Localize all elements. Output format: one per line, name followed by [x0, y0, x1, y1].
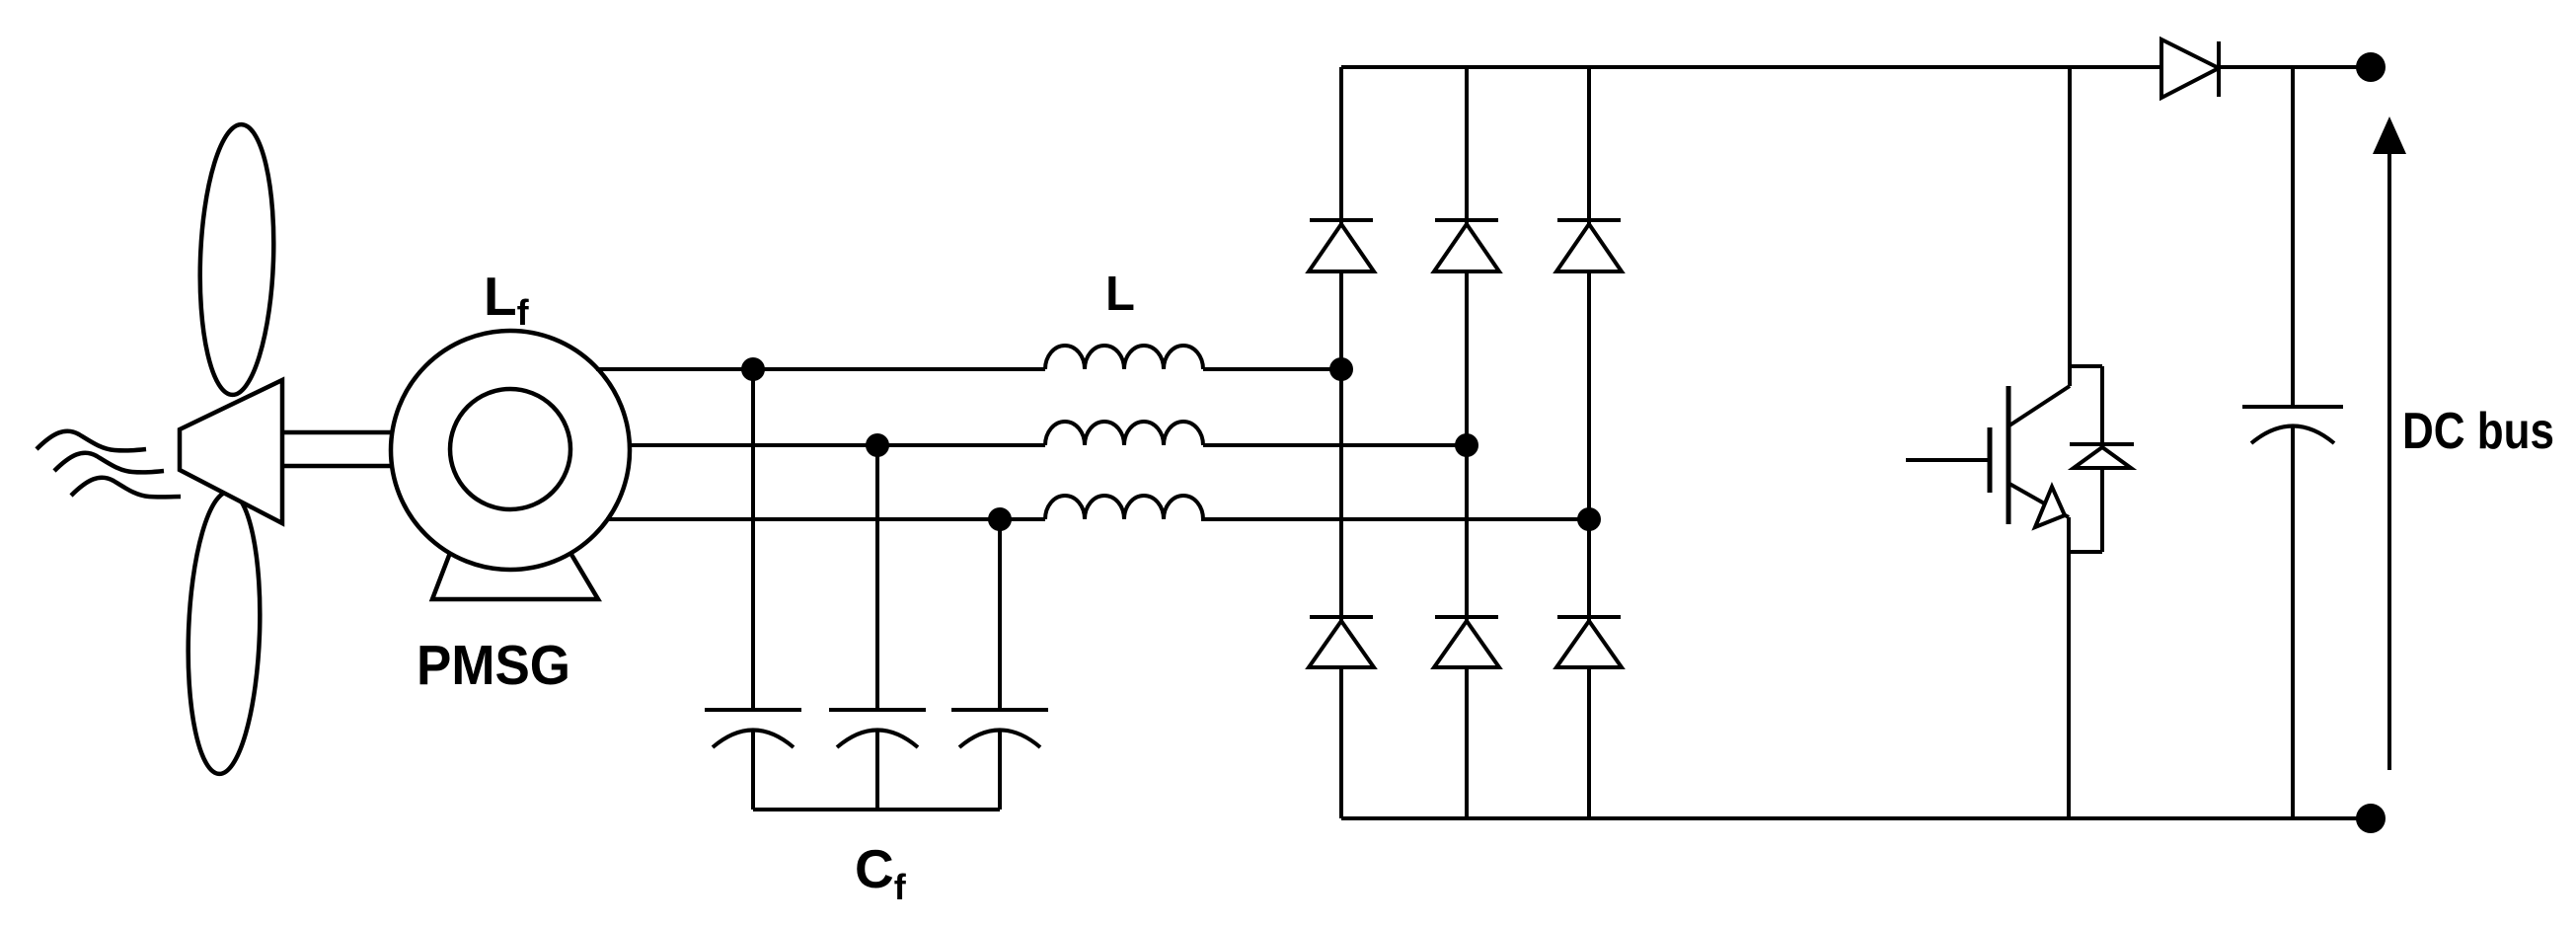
junction node leg2 phase B — [1455, 433, 1478, 457]
IGBT bracket top — [2070, 364, 2102, 368]
capacitor Cf2 bottom lead — [875, 731, 879, 810]
diode D3 — [1435, 218, 1498, 222]
IGBT Q1 emitter arrowhead — [2035, 487, 2065, 527]
boost diode D7 triangle — [2161, 39, 2219, 98]
DC top bus — [1341, 65, 2371, 69]
wire phase A from generator — [596, 367, 1045, 371]
generator PMSG inner circle — [450, 389, 570, 509]
turbine shaft — [282, 432, 395, 466]
wire phase C to rectifier — [1201, 517, 1589, 521]
junction node phase A / Cf1 — [741, 357, 765, 381]
junction node phase C / Cf3 — [988, 507, 1012, 531]
wire phase A to rectifier — [1203, 367, 1341, 371]
junction node phase B / Cf2 — [866, 433, 889, 457]
inductor L phase C — [1045, 496, 1203, 519]
capacitor Cf1 plates — [705, 710, 801, 747]
wind gust line 2 — [54, 453, 164, 473]
boost diode D7 cathode bar — [2217, 41, 2221, 97]
IGBT Q1 gate lead — [1906, 458, 1990, 462]
rectifier leg 2 wire — [1465, 67, 1469, 818]
DC bus arrow head — [2373, 116, 2406, 154]
DC link capacitor top lead — [2291, 67, 2295, 407]
IGBT Q1 body bar — [2007, 386, 2011, 524]
capacitor Cf2 plates — [829, 710, 926, 747]
IGBT Q1 gate bar — [1988, 427, 1993, 493]
turbine hub — [180, 380, 282, 523]
capacitor Cf3 top lead — [998, 519, 1002, 710]
diode D2 — [1310, 615, 1373, 619]
diode D6 — [1557, 615, 1621, 619]
capacitor bank bottom rail — [753, 808, 1000, 811]
generator mounting base — [432, 553, 598, 599]
capacitor Cf3 plates — [951, 710, 1048, 747]
IGBT collector wire — [2068, 67, 2072, 386]
junction node leg1 phase A — [1329, 357, 1353, 381]
diode D5 — [1557, 218, 1621, 222]
rectifier leg 1 wire — [1339, 67, 1343, 818]
turbine blade lower — [184, 491, 265, 775]
IGBT bracket bottom — [2069, 550, 2102, 554]
wire phase C from generator — [606, 517, 1045, 521]
svg-text:L: L — [1105, 268, 1135, 321]
anti-parallel diode Dq triangle — [2074, 447, 2131, 468]
wind gust line 1 — [37, 431, 146, 451]
inductor L phase A — [1045, 346, 1203, 369]
anti-parallel diode Dq cathode bar — [2070, 442, 2134, 446]
DC bottom bus — [1341, 816, 2371, 820]
IGBT Q1 emitter diagonal — [2009, 484, 2069, 517]
DC link capacitor bottom lead — [2291, 426, 2295, 818]
wire phase B from generator — [628, 443, 1045, 447]
wind gust line 3 — [71, 478, 181, 498]
capacitor Cf1 top lead — [751, 369, 755, 710]
DC link capacitor plates — [2242, 407, 2343, 443]
DC bus arrow line — [2387, 150, 2391, 770]
IGBT bracket vertical — [2100, 366, 2104, 552]
diode D4 — [1435, 615, 1498, 619]
rectifier leg 3 wire — [1587, 67, 1591, 818]
capacitor Cf3 bottom lead — [998, 731, 1002, 810]
capacitor Cf2 top lead — [875, 445, 879, 710]
capacitor Cf1 bottom lead — [751, 731, 755, 810]
IGBT Q1 collector diagonal — [2009, 386, 2070, 425]
inductor L phase B — [1045, 422, 1203, 445]
IGBT emitter wire — [2067, 517, 2071, 818]
junction node leg3 phase C — [1577, 507, 1601, 531]
turbine blade upper — [195, 123, 278, 396]
diode D1 — [1310, 218, 1373, 222]
DC- terminal node — [2356, 804, 2386, 833]
svg-text:DC bus: DC bus — [2402, 403, 2554, 460]
generator PMSG outer circle — [391, 331, 630, 570]
svg-text:PMSG: PMSG — [417, 634, 570, 697]
DC+ terminal node — [2356, 52, 2386, 82]
wire phase B to rectifier — [1203, 443, 1467, 447]
